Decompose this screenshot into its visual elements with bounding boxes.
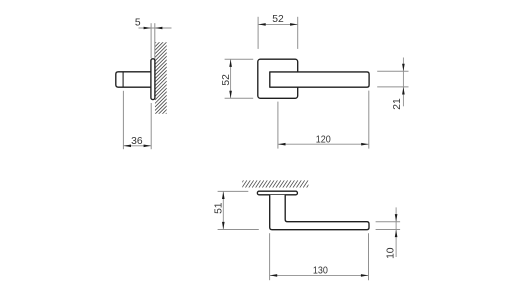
arrow left (dim 130) — [270, 274, 277, 277]
extension line right (dim 52 top) — [297, 17, 299, 49]
rose plate (side view) — [151, 59, 155, 100]
extension line top (dim 10) — [376, 221, 401, 223]
arrow right (dim 5) — [155, 27, 162, 30]
extension line left (dim 36) — [122, 91, 124, 149]
arrow down onto top (dim 10) — [395, 214, 398, 221]
svg-text:52: 52 — [272, 14, 284, 25]
dimension line 120 — [278, 143, 369, 145]
arrow right (dim 120) — [361, 143, 368, 146]
arrow left (dim 52 top) — [258, 23, 265, 26]
dimension line 36 — [123, 145, 151, 147]
dimension line 5 — [139, 27, 172, 29]
arrow left (dim 120) — [278, 143, 285, 146]
dimension line 52 top — [258, 23, 298, 25]
dimension line 51 — [222, 191, 224, 229]
dimension line 21 — [402, 58, 404, 107]
svg-text:120: 120 — [316, 135, 331, 146]
handle profile (top view) — [270, 195, 369, 230]
extension line top (dim 51) — [218, 190, 249, 192]
wall hatching (side view) — [155, 31, 167, 125]
dimension line 52 left — [230, 59, 232, 98]
svg-text:21: 21 — [392, 98, 403, 110]
extension line right (dim 130) — [368, 233, 370, 280]
svg-text:36: 36 — [131, 136, 143, 147]
arrow right (dim 130) — [361, 274, 368, 277]
rose plate (top view) — [257, 191, 297, 195]
square rose (front view) — [258, 59, 298, 98]
arrow down (dim 51) — [222, 222, 225, 229]
dimension line 130 — [270, 274, 369, 276]
extension line left (dim 52 top) — [257, 17, 259, 49]
handle neck (side view) — [116, 72, 152, 87]
dimension line 10 — [395, 207, 397, 257]
extension line bottom (dim 10) — [376, 229, 401, 231]
arrow up onto bottom (dim 10) — [395, 230, 398, 237]
arrow left (dim 36) — [124, 145, 131, 148]
extension line right (dim 120) — [368, 91, 370, 149]
handle end-cap line (side view) — [122, 72, 124, 87]
svg-text:52: 52 — [221, 74, 232, 86]
arrow right (dim 36) — [144, 145, 151, 148]
arrow up onto bottom (dim 21) — [402, 87, 405, 94]
wall face line — [154, 23, 156, 59]
extension line bottom (dim 51) — [218, 229, 259, 231]
svg-text:51: 51 — [213, 202, 224, 214]
extension line bottom (dim 21) — [377, 86, 408, 88]
svg-text:10: 10 — [386, 247, 397, 259]
arrow up (dim 51) — [222, 192, 225, 199]
extension line left (dim 130) — [269, 233, 271, 280]
extension line top (dim 21) — [377, 70, 408, 72]
extension line left (dim 120) — [277, 102, 279, 149]
arrow down (dim 52 left) — [229, 91, 232, 98]
arrow down onto top (dim 21) — [402, 64, 405, 71]
svg-text:5: 5 — [135, 18, 141, 29]
extension line top (dim 52 left) — [225, 58, 254, 60]
arrow up (dim 52 left) — [229, 60, 232, 67]
extension line right (dim 36) — [150, 103, 152, 149]
lever handle (front view) — [270, 72, 369, 87]
svg-text:130: 130 — [313, 266, 328, 277]
arrow right (dim 52 top) — [290, 23, 297, 26]
arrow left (dim 5) — [144, 27, 151, 30]
door hatching strip (top view) — [239, 180, 312, 187]
extension line (rose front face, dim 5) — [150, 23, 152, 58]
extension line bottom (dim 52 left) — [225, 97, 254, 99]
